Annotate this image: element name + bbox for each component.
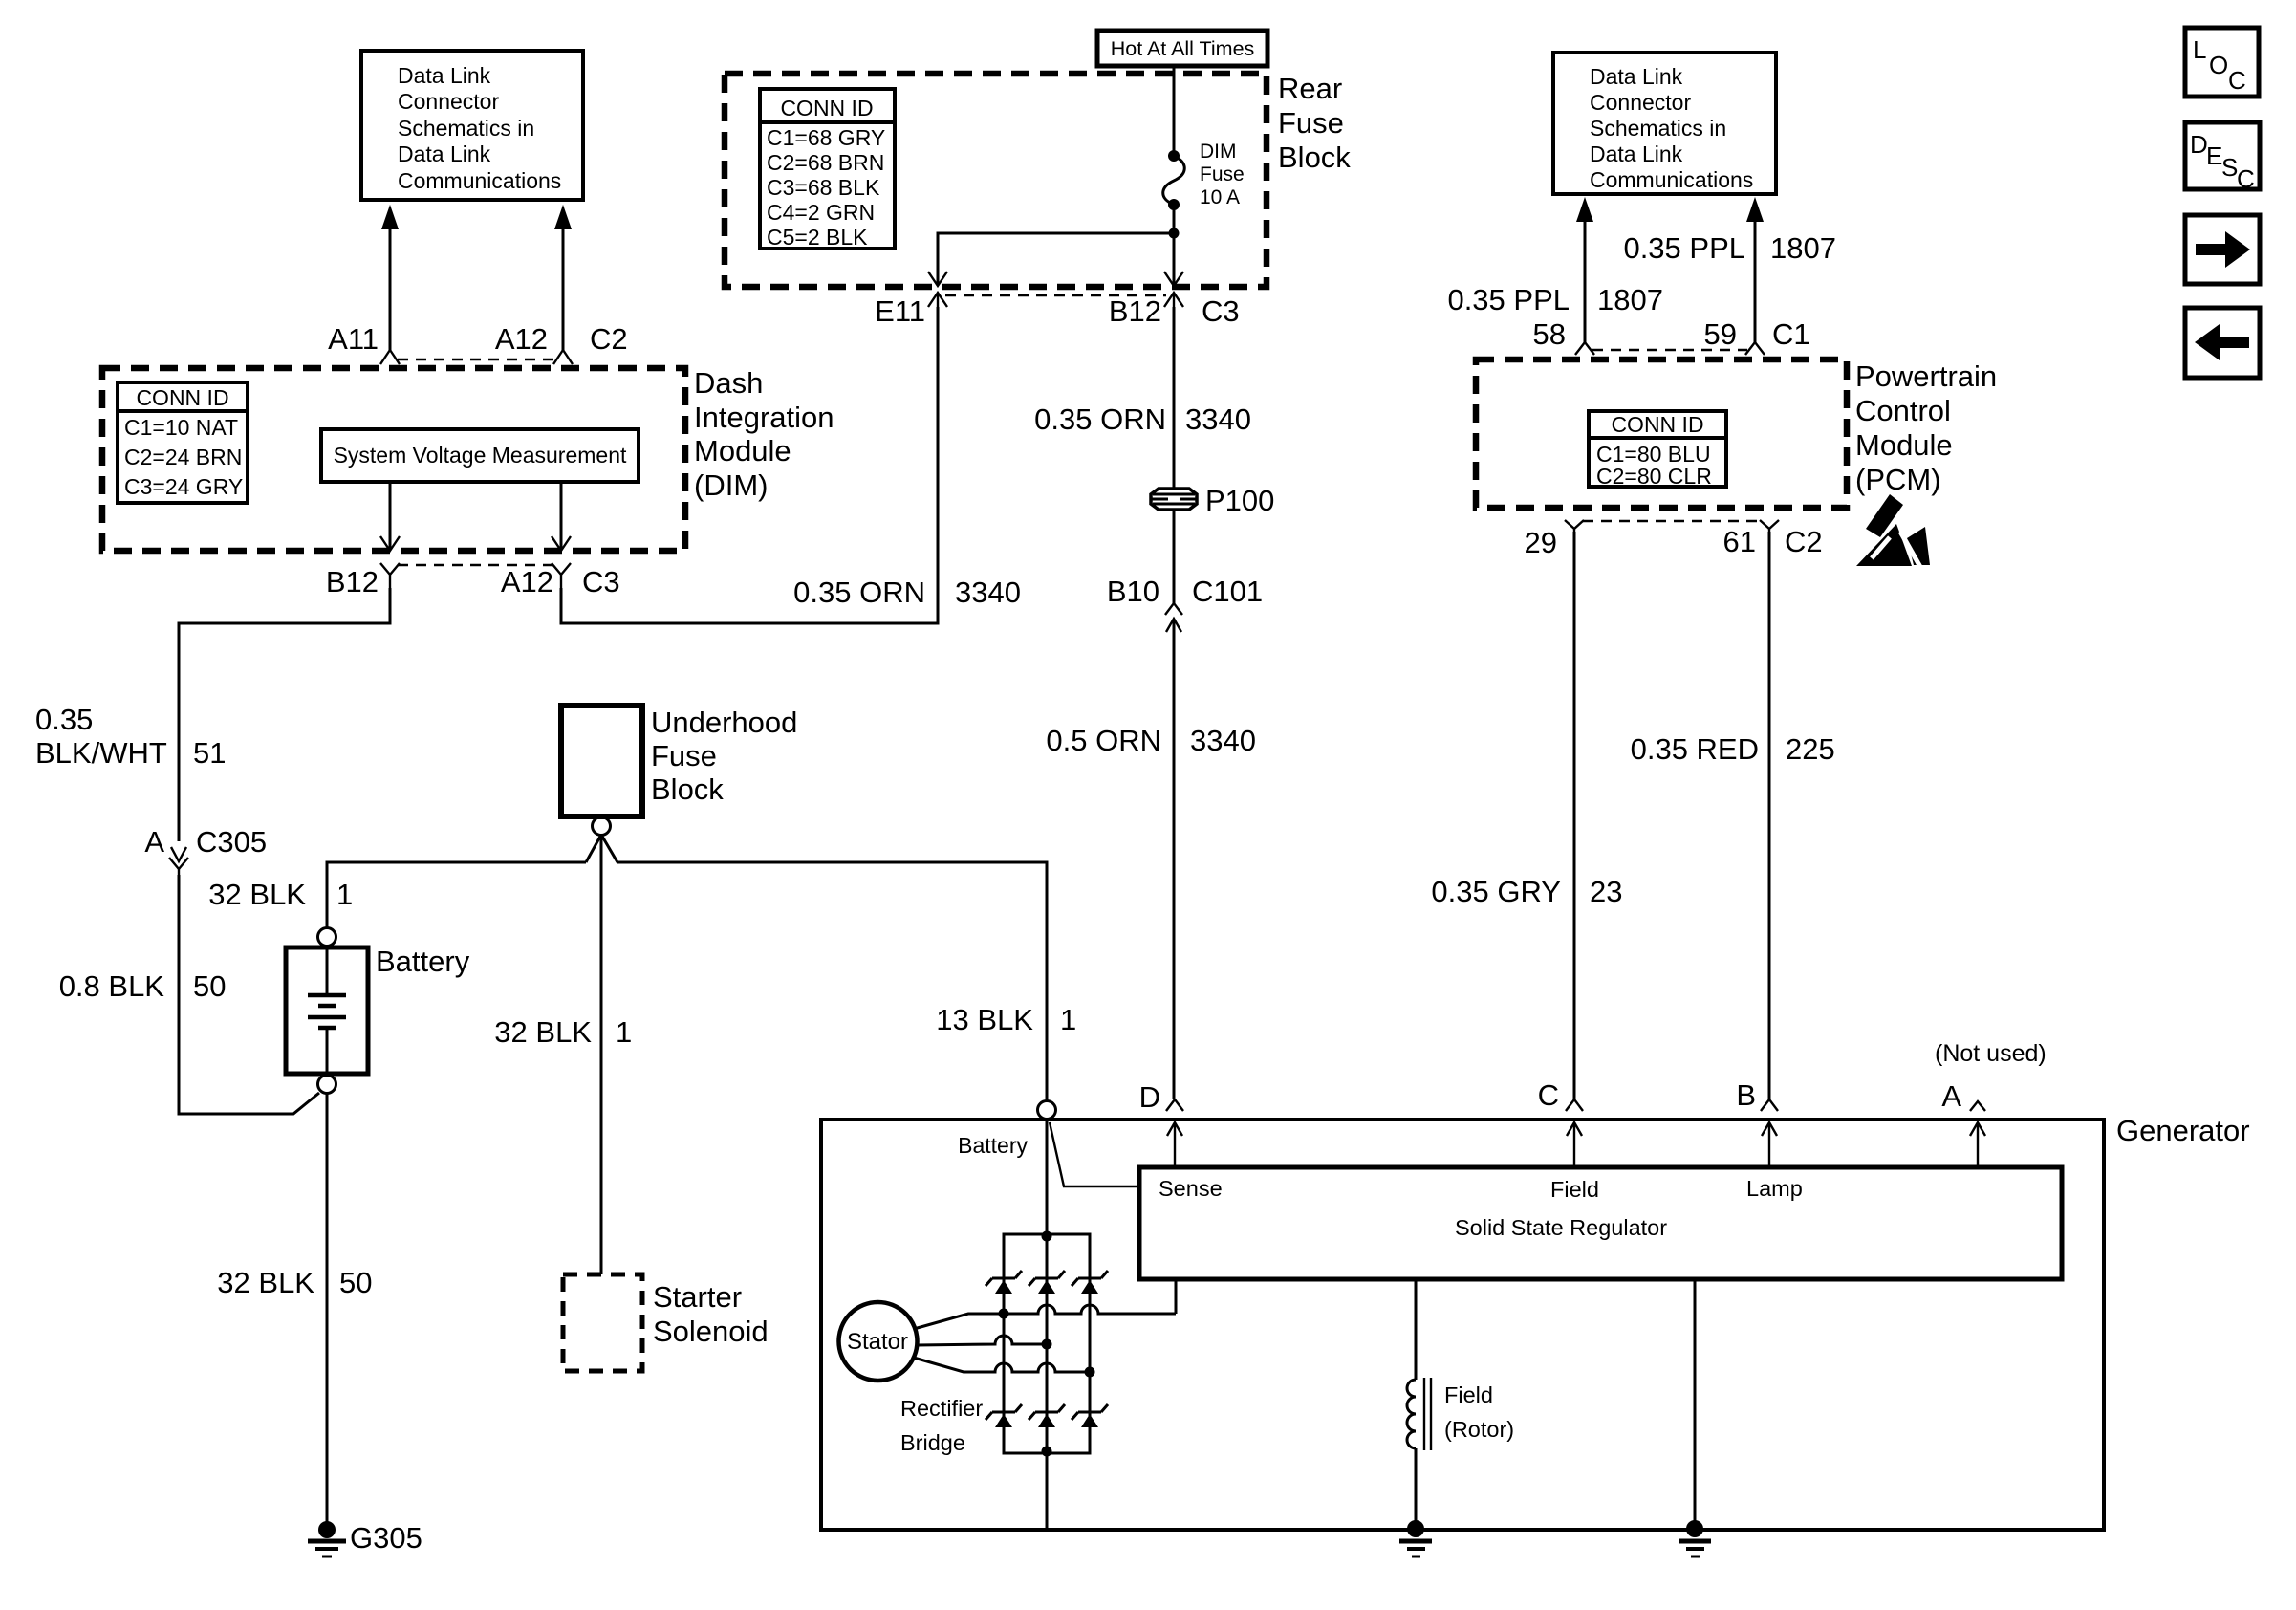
svg-text:225: 225 xyxy=(1786,732,1835,766)
svg-text:(DIM): (DIM) xyxy=(694,468,768,502)
ground junction dot field xyxy=(1407,1520,1424,1537)
svg-text:(Not used): (Not used) xyxy=(1935,1040,2047,1067)
connector half B at generator xyxy=(1761,1099,1778,1111)
svg-text:CONN ID: CONN ID xyxy=(1611,412,1703,437)
svg-text:0.35 PPL: 0.35 PPL xyxy=(1623,231,1745,265)
svg-text:Underhood: Underhood xyxy=(651,706,797,739)
svg-text:Fuse: Fuse xyxy=(1278,106,1344,140)
svg-text:Rectifier: Rectifier xyxy=(900,1396,983,1421)
svg-text:E: E xyxy=(2206,141,2222,170)
wire regulator sense down to bridge phase xyxy=(1175,1279,1178,1314)
fuse DIM Fuse 10 A xyxy=(1163,150,1185,210)
svg-text:A12: A12 xyxy=(501,565,553,598)
svg-text:D: D xyxy=(1139,1080,1160,1114)
wire horizontal to battery xyxy=(327,862,586,927)
generator battery terminal circle xyxy=(1038,1101,1056,1120)
wire C305 down to battery negative xyxy=(179,875,319,1114)
diode bottom right xyxy=(1072,1404,1108,1427)
DESC icon box xyxy=(2185,122,2260,193)
svg-text:B12: B12 xyxy=(326,565,379,598)
field rotor coil xyxy=(1407,1378,1431,1450)
svg-text:0.8 BLK: 0.8 BLK xyxy=(59,969,165,1003)
connector C305 arrow and half xyxy=(169,847,188,875)
stator phase wire 2 xyxy=(917,1336,1047,1345)
phase 1 crossover line to sense xyxy=(1004,1305,1176,1314)
svg-text:Communications: Communications xyxy=(1590,167,1753,192)
ground G305 xyxy=(308,1521,346,1556)
battery cell symbol xyxy=(308,947,346,1074)
svg-text:A12: A12 xyxy=(495,322,548,356)
svg-text:P100: P100 xyxy=(1205,484,1274,517)
svg-text:59: 59 xyxy=(1704,317,1737,351)
diode top left xyxy=(986,1271,1022,1294)
svg-text:Rear: Rear xyxy=(1278,72,1342,105)
svg-text:Bridge: Bridge xyxy=(900,1430,965,1455)
wire junction down branch to B12/C3 with arrow xyxy=(1164,233,1183,286)
svg-text:C3: C3 xyxy=(1202,294,1240,328)
wire horizontal to generator battery terminal xyxy=(617,862,1047,1100)
svg-text:1807: 1807 xyxy=(1597,283,1663,316)
wire field coil to ground xyxy=(1415,1448,1418,1528)
svg-text:C5=2 BLK: C5=2 BLK xyxy=(767,225,868,250)
svg-text:B12: B12 xyxy=(1109,294,1161,328)
svg-text:A: A xyxy=(1941,1079,1961,1113)
svg-text:32 BLK: 32 BLK xyxy=(217,1266,314,1299)
grommet P100 xyxy=(1151,489,1197,510)
svg-text:(PCM): (PCM) xyxy=(1855,463,1941,496)
svg-text:C1=68 GRY: C1=68 GRY xyxy=(767,125,885,150)
LOC icon box xyxy=(2185,28,2259,97)
svg-text:32 BLK: 32 BLK xyxy=(494,1015,592,1049)
rear fuse block dashed box xyxy=(725,74,1267,287)
generator box xyxy=(821,1120,2104,1530)
ESD warning symbol xyxy=(1856,494,1930,567)
connector half 59/C1 at PCM top xyxy=(1745,342,1765,355)
svg-text:C2=68 BRN: C2=68 BRN xyxy=(767,150,884,175)
stator phase wire 1 xyxy=(914,1314,1004,1329)
wire PCM 59/C1 up to data link box with arrow xyxy=(1746,197,1764,342)
svg-text:DIM: DIM xyxy=(1200,141,1237,163)
svg-text:50: 50 xyxy=(339,1266,372,1299)
connector half E11 xyxy=(928,293,947,307)
connector C101 half and arrow xyxy=(1165,603,1182,632)
data link connector box (right) xyxy=(1553,53,1776,194)
svg-text:3340: 3340 xyxy=(1185,402,1251,436)
connector half A at generator xyxy=(1970,1101,1985,1111)
svg-text:0.35: 0.35 xyxy=(35,703,93,736)
right arrow icon box xyxy=(2185,215,2260,284)
svg-text:BLK/WHT: BLK/WHT xyxy=(35,736,167,770)
junction dot xyxy=(1169,228,1180,239)
svg-text:C: C xyxy=(2237,164,2255,193)
ground junction dot lamp xyxy=(1686,1520,1703,1537)
svg-text:C2=80 CLR: C2=80 CLR xyxy=(1596,464,1712,489)
svg-text:CONN ID: CONN ID xyxy=(136,385,228,410)
wire SVM to B12 with arrow xyxy=(380,482,400,551)
svg-text:System Voltage Measurement: System Voltage Measurement xyxy=(334,443,627,468)
svg-text:Module: Module xyxy=(694,434,791,468)
connector half B12/C3 xyxy=(1164,293,1183,307)
hot at all times box xyxy=(1097,31,1267,66)
underhood fuse block box xyxy=(561,706,642,816)
starter solenoid dashed box xyxy=(563,1274,642,1371)
svg-text:C1=10 NAT: C1=10 NAT xyxy=(124,415,238,440)
connector half A12/C3 below DIM xyxy=(552,563,571,588)
svg-text:C: C xyxy=(2228,66,2246,95)
left arrow icon box xyxy=(2185,308,2260,378)
svg-text:Solenoid: Solenoid xyxy=(653,1315,769,1348)
svg-text:Dash: Dash xyxy=(694,366,763,400)
svg-text:Communications: Communications xyxy=(398,168,561,193)
svg-text:Fuse: Fuse xyxy=(1200,163,1245,185)
svg-text:Fuse: Fuse xyxy=(651,739,717,772)
diode top right xyxy=(1072,1271,1108,1294)
svg-text:C: C xyxy=(1538,1078,1559,1112)
starter solenoid label xyxy=(653,1280,769,1348)
wire bridge output to ground rail xyxy=(1046,1453,1049,1528)
svg-text:3340: 3340 xyxy=(1190,724,1256,757)
svg-text:Connector: Connector xyxy=(1590,90,1691,115)
wire battery terminal into generator xyxy=(1046,1120,1049,1234)
svg-text:0.35 ORN: 0.35 ORN xyxy=(1034,402,1166,436)
system voltage measurement box xyxy=(321,429,639,482)
wire DIM B12 down-left to C305 xyxy=(179,588,390,841)
svg-text:Schematics in: Schematics in xyxy=(1590,116,1726,141)
thin dashed connector line B12-A12 xyxy=(398,564,553,567)
svg-text:Stator: Stator xyxy=(847,1329,908,1355)
svg-text:23: 23 xyxy=(1590,875,1622,908)
wire sense tap diagonal xyxy=(1050,1122,1139,1186)
connector half C at generator xyxy=(1566,1099,1583,1111)
svg-text:Battery: Battery xyxy=(958,1133,1028,1158)
svg-text:A11: A11 xyxy=(328,322,379,356)
svg-text:Generator: Generator xyxy=(2116,1114,2250,1147)
wire A11 to data link box with arrow xyxy=(381,205,399,350)
wire splice from fuse block terminal xyxy=(586,835,617,1274)
svg-text:0.35 GRY: 0.35 GRY xyxy=(1431,875,1561,908)
svg-text:G305: G305 xyxy=(350,1521,422,1555)
svg-text:0.35 RED: 0.35 RED xyxy=(1631,732,1759,766)
svg-text:Schematics in: Schematics in xyxy=(398,116,534,141)
wire C101 down to generator D xyxy=(1173,619,1176,1099)
data link connector box (left) xyxy=(361,51,583,200)
svg-text:C101: C101 xyxy=(1192,575,1263,608)
stator circle xyxy=(839,1302,918,1381)
svg-text:Powertrain: Powertrain xyxy=(1855,359,1997,393)
svg-text:C1: C1 xyxy=(1772,317,1810,351)
svg-text:C3=24 GRY: C3=24 GRY xyxy=(124,474,243,499)
svg-text:1: 1 xyxy=(1060,1003,1076,1036)
svg-text:C3: C3 xyxy=(582,565,620,598)
battery box xyxy=(286,947,368,1074)
ground symbol lamp xyxy=(1679,1541,1711,1556)
connector half D at generator xyxy=(1166,1099,1183,1111)
CONN ID table rear fuse block xyxy=(760,89,895,250)
connector half 58 at PCM top xyxy=(1575,342,1594,355)
pin D arrow into generator xyxy=(1167,1122,1182,1167)
battery positive terminal circle xyxy=(318,928,336,946)
dash integration module DIM dashed box xyxy=(102,368,685,551)
wire SVM to A12/C3 with arrow xyxy=(552,482,571,551)
underhood fuse block label xyxy=(651,706,797,806)
svg-text:B10: B10 xyxy=(1107,575,1159,608)
wire label 0.35 BLK/WHT xyxy=(35,703,167,770)
wire fuse to junction xyxy=(1173,205,1176,233)
svg-text:E11: E11 xyxy=(875,294,925,328)
stator phase wire 3 xyxy=(914,1358,1090,1372)
svg-text:Connector: Connector xyxy=(398,89,499,114)
svg-text:Integration: Integration xyxy=(694,401,834,434)
solid state regulator box xyxy=(1139,1167,2062,1279)
DIM label xyxy=(694,366,834,502)
svg-text:C2=24 BRN: C2=24 BRN xyxy=(124,445,242,469)
svg-text:Data Link: Data Link xyxy=(1590,141,1683,166)
svg-text:Hot At All Times: Hot At All Times xyxy=(1111,37,1255,60)
thin dashed connector line 58-59 xyxy=(1592,349,1747,352)
CONN ID table DIM xyxy=(118,382,248,503)
wire regulator lamp return to ground xyxy=(1694,1279,1697,1528)
field rotor label xyxy=(1444,1382,1514,1442)
rectifier bridge frame xyxy=(1004,1234,1090,1453)
svg-text:C2: C2 xyxy=(1785,525,1823,558)
pin C arrow into generator xyxy=(1567,1122,1582,1167)
connector half 29 below PCM xyxy=(1565,520,1584,535)
svg-text:Module: Module xyxy=(1855,428,1953,462)
diode top middle xyxy=(1029,1271,1065,1294)
diode bottom left xyxy=(986,1404,1022,1427)
wire battery negative down to G305 xyxy=(326,1094,329,1522)
svg-text:Starter: Starter xyxy=(653,1280,742,1314)
wire A12/C2 to data link box with arrow xyxy=(554,205,572,350)
phase 1 junction dot xyxy=(999,1309,1009,1319)
wire PCM 61 down to generator B xyxy=(1768,532,1771,1099)
svg-text:Block: Block xyxy=(1278,141,1351,174)
svg-text:13 BLK: 13 BLK xyxy=(936,1003,1033,1036)
wire hot feed into fuse xyxy=(1173,66,1176,153)
thin dashed connector line E11-B12 xyxy=(945,294,1166,297)
svg-text:O: O xyxy=(2209,51,2228,79)
phase 2 junction dot xyxy=(1042,1339,1052,1350)
wire P100 to C101 xyxy=(1173,510,1176,603)
svg-text:Field: Field xyxy=(1444,1382,1493,1407)
PCM label xyxy=(1855,359,1997,496)
rectifier bridge label xyxy=(900,1396,983,1455)
wire E11 down joining DIM C3 wire xyxy=(561,307,938,623)
svg-text:51: 51 xyxy=(193,736,226,770)
svg-text:Battery: Battery xyxy=(376,945,470,978)
wire B12/C3 down to P100 xyxy=(1173,307,1176,489)
svg-text:A: A xyxy=(144,825,164,859)
svg-text:29: 29 xyxy=(1525,526,1557,559)
svg-text:10 A: 10 A xyxy=(1200,186,1240,208)
svg-text:3340: 3340 xyxy=(955,576,1021,609)
svg-text:0.35 PPL: 0.35 PPL xyxy=(1447,283,1570,316)
svg-text:C305: C305 xyxy=(196,825,267,859)
pin A arrow into generator xyxy=(1970,1122,1985,1167)
svg-text:L: L xyxy=(2193,35,2206,64)
svg-text:C4=2 GRN: C4=2 GRN xyxy=(767,200,875,225)
connector half B12 below DIM xyxy=(380,563,400,588)
diode bottom middle xyxy=(1029,1404,1065,1427)
CONN ID table PCM xyxy=(1589,411,1726,489)
svg-text:S: S xyxy=(2221,153,2238,182)
connector half A12/C2 at DIM top xyxy=(553,350,573,364)
wire junction left branch to E11 with arrow xyxy=(928,233,1174,286)
thin dashed connector line 29-61 xyxy=(1583,520,1761,523)
phase 3 junction dot xyxy=(1085,1367,1095,1378)
connector half A11 at DIM top xyxy=(380,350,400,364)
pin B arrow into generator xyxy=(1762,1122,1777,1167)
thin dashed connector line A11-A12 xyxy=(398,359,555,361)
svg-text:Lamp: Lamp xyxy=(1746,1176,1803,1201)
svg-text:1: 1 xyxy=(336,878,353,911)
svg-text:1807: 1807 xyxy=(1770,231,1836,265)
fuse label DIM Fuse 10 A xyxy=(1200,141,1245,208)
underhood fuse block terminal circle xyxy=(593,817,611,836)
svg-text:50: 50 xyxy=(193,969,226,1003)
svg-text:1: 1 xyxy=(616,1015,632,1049)
battery negative terminal circle xyxy=(318,1076,336,1094)
wire PCM 58 up to data link box with arrow xyxy=(1576,197,1593,342)
powertrain control module dashed box xyxy=(1476,359,1847,508)
wire PCM 29 down to generator C xyxy=(1573,532,1576,1099)
svg-text:58: 58 xyxy=(1533,317,1566,351)
ground symbol field xyxy=(1399,1541,1432,1556)
svg-text:C2: C2 xyxy=(590,322,628,356)
bridge top junction dot xyxy=(1042,1231,1052,1242)
svg-text:Block: Block xyxy=(651,772,724,806)
svg-text:D: D xyxy=(2190,130,2208,159)
svg-text:32 BLK: 32 BLK xyxy=(208,878,306,911)
svg-text:Data Link: Data Link xyxy=(1590,64,1683,89)
svg-text:0.5 ORN: 0.5 ORN xyxy=(1046,724,1161,757)
rear fuse block label xyxy=(1278,72,1351,174)
svg-text:Sense: Sense xyxy=(1159,1176,1223,1201)
bridge bottom junction dot xyxy=(1042,1447,1052,1457)
svg-text:B: B xyxy=(1736,1078,1756,1112)
connector half 61/C2 below PCM xyxy=(1760,520,1779,535)
svg-text:Field: Field xyxy=(1550,1177,1599,1202)
svg-text:Solid State Regulator: Solid State Regulator xyxy=(1455,1215,1667,1240)
svg-text:Data Link: Data Link xyxy=(398,63,491,88)
svg-text:Control: Control xyxy=(1855,394,1951,427)
svg-text:C3=68 BLK: C3=68 BLK xyxy=(767,175,880,200)
svg-text:(Rotor): (Rotor) xyxy=(1444,1417,1514,1442)
svg-text:Data Link: Data Link xyxy=(398,141,491,166)
wire regulator field output down xyxy=(1415,1279,1418,1380)
svg-text:0.35 ORN: 0.35 ORN xyxy=(793,576,925,609)
svg-text:CONN ID: CONN ID xyxy=(780,96,873,120)
svg-text:61: 61 xyxy=(1723,525,1756,558)
